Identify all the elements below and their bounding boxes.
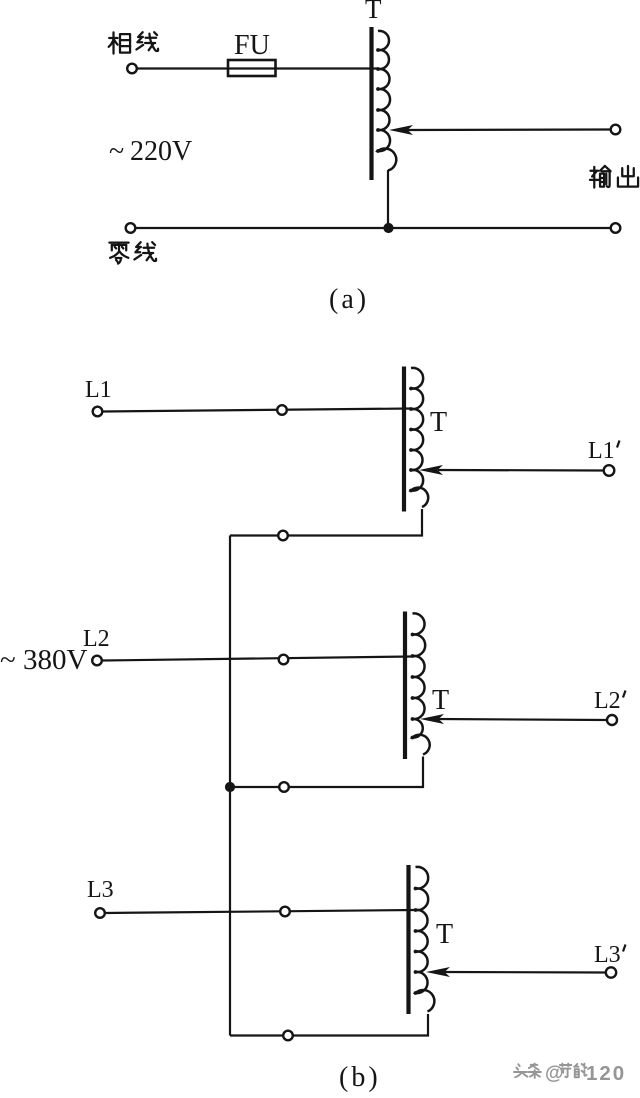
terminal: output top: [611, 125, 621, 135]
wire: L2 to T2: [102, 657, 413, 661]
terminal: output bottom: [611, 223, 621, 233]
svg-text:L1: L1: [85, 377, 112, 403]
connection circle on L1 wire: [277, 405, 287, 415]
terminal L1 prime: [604, 465, 615, 476]
svg-text:T: T: [436, 919, 453, 950]
svg-text:L3: L3: [87, 877, 114, 903]
junction dot on neutral: [383, 223, 393, 233]
terminal L2: [92, 656, 102, 666]
label 输出 (output): [590, 166, 611, 188]
transformer T1 core bar: [402, 367, 406, 512]
arrowhead tap on T3: [426, 967, 450, 977]
terminal L3 prime: [606, 967, 616, 977]
svg-text:380V: 380V: [23, 644, 88, 676]
vertical bus wire: [229, 536, 231, 1036]
arrowhead tap on T1: [419, 465, 443, 475]
svg-text:(b): (b): [339, 1062, 381, 1093]
connection circle on T2 bottom wire: [279, 782, 289, 792]
label 相线 (phase line): [109, 32, 130, 53]
svg-text:L2: L2: [83, 626, 110, 652]
svg-text:L2: L2: [594, 688, 621, 714]
transformer T1a winding: [378, 31, 396, 171]
svg-text:120: 120: [586, 1062, 626, 1085]
arrowhead tap on T2: [420, 714, 444, 724]
terminal L1: [93, 407, 103, 417]
terminal: neutral left: [126, 223, 136, 233]
connection circle on T3 bottom wire: [283, 1031, 293, 1041]
wire: neutral bottom line: [131, 227, 616, 229]
wire: L3 prime arrow line: [443, 971, 606, 974]
wire: phase input to winding: [137, 67, 378, 69]
transformer T2 core bar: [403, 612, 407, 760]
transformer T3 core bar: [406, 865, 410, 1014]
wire: L2 prime arrow line: [437, 719, 607, 720]
wire: L1 to T1: [103, 409, 412, 412]
terminal L2 prime: [607, 715, 617, 725]
wire: T2 winding bottom to bus: [230, 757, 423, 788]
wire: T3 winding bottom to bus: [230, 1014, 428, 1036]
wire: T1 winding bottom to bus: [230, 509, 422, 536]
svg-text:(a): (a): [329, 284, 369, 315]
fuse FU: [228, 60, 276, 76]
terminal L3: [95, 908, 105, 918]
svg-text:~: ~: [109, 136, 124, 167]
label 零线 (neutral line): [109, 243, 128, 264]
connection circle on L2 wire: [279, 655, 289, 665]
watermark 头条@节能120: [514, 1064, 527, 1077]
wire: L3 to T3: [105, 910, 416, 913]
wire: winding bottom down: [387, 170, 389, 228]
transformer T1a core bar: [369, 27, 373, 180]
wire: output tap arrow line: [407, 128, 610, 131]
svg-text:@: @: [545, 1063, 564, 1084]
svg-text:FU: FU: [234, 30, 270, 61]
svg-text:~: ~: [0, 644, 16, 676]
transformer T3 winding: [416, 867, 435, 1012]
svg-text:T: T: [365, 0, 382, 24]
wire: L1 prime arrow line: [438, 469, 604, 472]
svg-text:L3: L3: [594, 942, 621, 968]
terminal: phase line input: [127, 64, 137, 74]
connection circle on T1 bottom wire: [278, 531, 288, 541]
transformer T1 winding: [411, 368, 428, 507]
svg-text:220V: 220V: [130, 136, 192, 167]
junction dot on bus: [225, 782, 235, 792]
svg-text:T: T: [430, 407, 447, 438]
svg-text:T: T: [432, 685, 449, 716]
transformer T2 winding: [413, 613, 430, 754]
svg-text:L1: L1: [588, 438, 615, 464]
arrowhead tap on T1a: [389, 125, 413, 135]
connection circle on L3 wire: [280, 907, 290, 917]
